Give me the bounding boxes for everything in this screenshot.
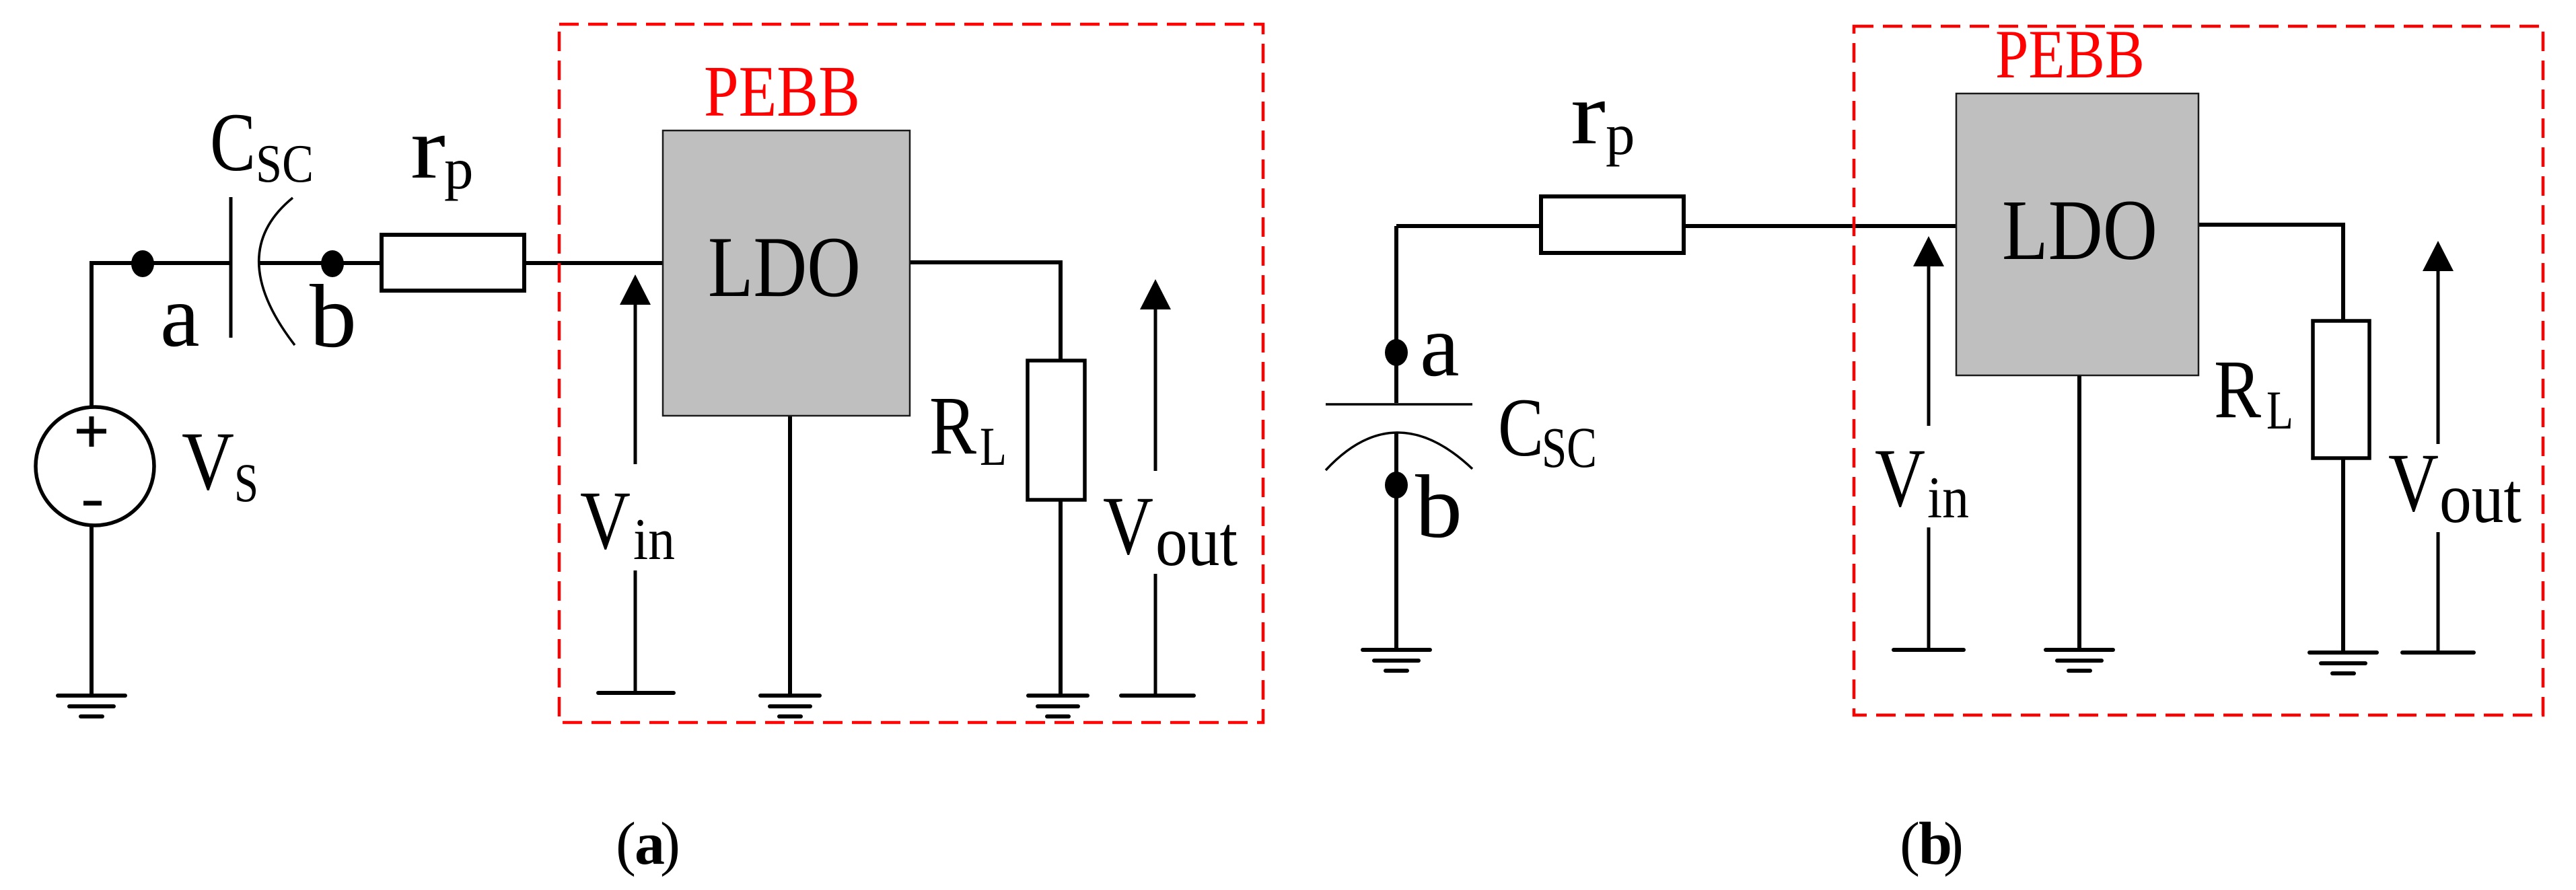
- svg-text:): ): [660, 811, 680, 877]
- svg-text:V: V: [1875, 432, 1925, 524]
- svg-text:a: a: [160, 266, 200, 365]
- svg-text:R: R: [2214, 343, 2261, 435]
- svg-text:(: (: [616, 811, 636, 877]
- svg-text:V: V: [2388, 437, 2439, 529]
- svg-text:SC: SC: [1542, 415, 1597, 480]
- svg-text:r: r: [410, 98, 445, 197]
- svg-text:V: V: [580, 474, 631, 566]
- svg-text:): ): [1943, 811, 1964, 877]
- svg-text:SC: SC: [256, 133, 314, 194]
- svg-text:out: out: [1155, 502, 1238, 581]
- svg-text:a: a: [1420, 296, 1460, 395]
- svg-text:in: in: [633, 507, 675, 572]
- svg-text:V: V: [1103, 480, 1153, 572]
- svg-text:p: p: [444, 136, 474, 201]
- svg-text:LDO: LDO: [2002, 182, 2157, 278]
- svg-text:r: r: [1571, 64, 1606, 163]
- svg-text:R: R: [929, 379, 976, 472]
- svg-text:PEBB: PEBB: [704, 52, 860, 132]
- svg-text:C: C: [210, 96, 256, 188]
- svg-text:(: (: [1900, 811, 1920, 877]
- svg-text:out: out: [2439, 459, 2521, 537]
- svg-text:in: in: [1927, 466, 1969, 531]
- svg-text:p: p: [1606, 102, 1635, 167]
- svg-text:LDO: LDO: [708, 219, 861, 315]
- svg-text:PEBB: PEBB: [1995, 16, 2145, 93]
- svg-text:L: L: [980, 416, 1007, 477]
- svg-text:b: b: [1415, 457, 1462, 556]
- svg-text:L: L: [2266, 379, 2293, 441]
- svg-text:V: V: [182, 415, 234, 507]
- svg-text:C: C: [1498, 381, 1544, 474]
- svg-text:S: S: [234, 452, 258, 513]
- svg-text:b: b: [310, 266, 357, 366]
